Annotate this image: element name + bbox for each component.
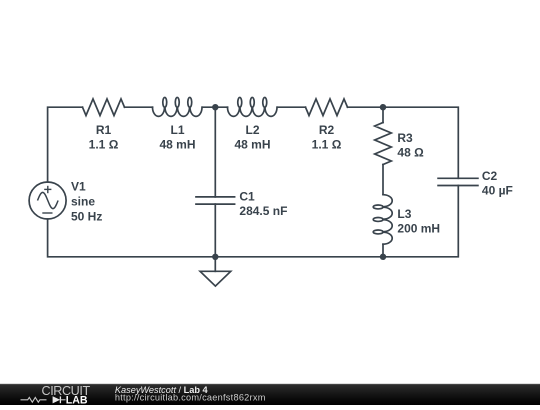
wire R3 to L3 xyxy=(382,165,384,195)
voltage source V1 xyxy=(29,182,66,219)
capacitor C2 xyxy=(438,177,478,179)
svg-text:R2: R2 xyxy=(319,123,335,137)
svg-text:1.1 Ω: 1.1 Ω xyxy=(89,137,119,151)
svg-text:R1: R1 xyxy=(96,123,112,137)
svg-text:C1: C1 xyxy=(239,190,255,204)
svg-text:48 mH: 48 mH xyxy=(159,137,195,151)
wire node B down to R3 xyxy=(382,107,384,122)
svg-text:48 Ω: 48 Ω xyxy=(397,146,424,160)
svg-text:L1: L1 xyxy=(170,123,184,137)
svg-text:L2: L2 xyxy=(245,123,259,137)
wire R2 to top-right corner xyxy=(348,107,459,178)
wire node A down to C1 xyxy=(214,107,216,197)
svg-text:1.1 Ω: 1.1 Ω xyxy=(312,137,342,151)
resistor R3 xyxy=(375,123,392,165)
node junction dot B (top, R3) xyxy=(380,104,386,110)
svg-text:40 µF: 40 µF xyxy=(482,184,513,198)
wire C2 to bottom-right corner xyxy=(383,186,458,257)
svg-text:C2: C2 xyxy=(482,169,498,183)
node junction dot A (top, C1) xyxy=(212,104,218,110)
wire bottom middle xyxy=(215,256,383,258)
svg-text:48 mH: 48 mH xyxy=(234,137,270,151)
resistor R1 xyxy=(83,99,125,116)
ground xyxy=(214,257,216,272)
inductor L1 xyxy=(153,97,203,116)
capacitor C1 xyxy=(196,196,235,198)
svg-text:284.5 nF: 284.5 nF xyxy=(239,204,287,218)
svg-text:LAB: LAB xyxy=(66,394,88,405)
svg-text:sine: sine xyxy=(71,195,95,209)
svg-text:R3: R3 xyxy=(397,131,413,145)
inductor L2 xyxy=(228,97,278,116)
wire V1 bottom to bottom-left corner xyxy=(48,219,216,257)
node junction dot bottom R3/L3 xyxy=(380,254,386,260)
wire top-left corner to R1 xyxy=(48,107,83,182)
wire L3 to bottom node xyxy=(382,244,384,257)
svg-text:V1: V1 xyxy=(71,180,86,194)
svg-text:L3: L3 xyxy=(397,207,411,221)
svg-text:50 Hz: 50 Hz xyxy=(71,209,102,223)
wire L1 to node A xyxy=(203,106,228,108)
node junction dot ground xyxy=(212,254,218,260)
wire R1 to L1 xyxy=(125,106,153,108)
wire L2 to R2 xyxy=(278,106,306,108)
wire C1 to ground node xyxy=(214,204,216,257)
inductor L3 xyxy=(373,195,392,245)
svg-text:200 mH: 200 mH xyxy=(397,221,440,235)
resistor R2 xyxy=(306,99,348,116)
svg-text:http://circuitlab.com/caenfst8: http://circuitlab.com/caenfst862rxm xyxy=(115,392,266,402)
